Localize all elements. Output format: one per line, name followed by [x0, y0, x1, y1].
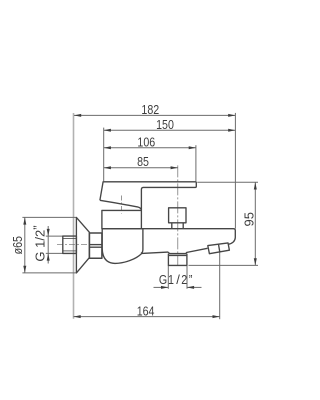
svg-text:95: 95 — [242, 212, 257, 226]
svg-text:106: 106 — [137, 135, 155, 150]
svg-text:164: 164 — [137, 303, 155, 318]
svg-text:”: ” — [189, 272, 193, 287]
svg-text:182: 182 — [141, 102, 159, 117]
svg-text:ø65: ø65 — [10, 236, 25, 255]
svg-text:/: / — [176, 272, 180, 287]
svg-text:2: 2 — [181, 272, 187, 287]
svg-text:85: 85 — [137, 154, 149, 169]
svg-text:150: 150 — [156, 117, 174, 132]
svg-text:G: G — [159, 272, 167, 287]
svg-text:G 1/2”: G 1/2” — [30, 225, 47, 261]
svg-text:1: 1 — [168, 272, 174, 287]
